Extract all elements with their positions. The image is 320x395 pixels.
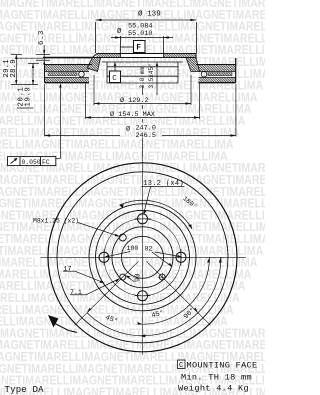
svg-text:17: 17 — [64, 265, 72, 272]
svg-text:246.5: 246.5 — [136, 132, 156, 140]
svg-text:19.9: 19.9 — [24, 87, 32, 107]
svg-text:C: C — [179, 362, 183, 370]
svg-text:7.1: 7.1 — [70, 289, 82, 296]
svg-text:Weight 4.4 Kg: Weight 4.4 Kg — [178, 384, 249, 394]
svg-text:Type DA: Type DA — [5, 385, 45, 395]
svg-text:3.5x45°: 3.5x45° — [148, 63, 155, 88]
svg-text:6.3: 6.3 — [38, 30, 46, 45]
svg-text:Ø 129.2: Ø 129.2 — [120, 96, 149, 105]
svg-text:Ø: Ø — [117, 27, 122, 36]
svg-text:C: C — [112, 75, 117, 83]
svg-text:Ø: Ø — [126, 125, 130, 134]
svg-text:Ø 139: Ø 139 — [138, 10, 161, 19]
svg-text:F: F — [136, 44, 141, 53]
svg-text:3.0 mm: 3.0 mm — [139, 66, 146, 88]
svg-text:100: 100 — [127, 245, 139, 252]
svg-text:MOUNTING FACE: MOUNTING FACE — [187, 360, 258, 370]
svg-text:M8x1.25 (x2): M8x1.25 (x2) — [33, 218, 79, 225]
svg-text:Min. TH 18 mm: Min. TH 18 mm — [181, 373, 252, 383]
svg-text:82: 82 — [145, 246, 153, 253]
svg-text:13.2 (x4): 13.2 (x4) — [143, 180, 184, 188]
svg-text:0.050: 0.050 — [22, 159, 41, 166]
svg-text:Ø 154.5 MAX: Ø 154.5 MAX — [110, 110, 155, 119]
svg-text:55.010: 55.010 — [128, 30, 152, 38]
svg-text:90: 90 — [135, 274, 143, 282]
svg-text:FC: FC — [42, 159, 50, 166]
svg-text:28.9: 28.9 — [10, 59, 18, 77]
